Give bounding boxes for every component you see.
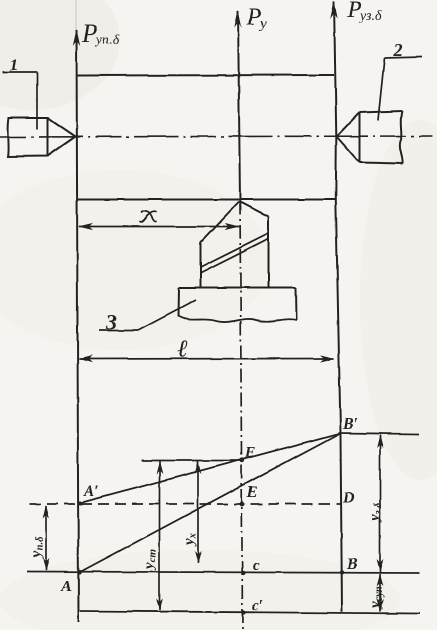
diagonal A to B' — [80, 433, 341, 572]
center vertical axis lower (dash-dot through tool and lower diagram) — [240, 201, 243, 629]
label 1 — [10, 55, 19, 74]
svg-text:F: F — [244, 445, 255, 461]
label P_uz.d — [346, 0, 382, 24]
svg-text:уз.δ: уз.δ — [358, 9, 382, 24]
node B dot — [340, 570, 344, 574]
node F label — [244, 445, 255, 461]
workpiece top edge — [77, 74, 335, 77]
dimension y_sup line — [379, 574, 381, 612]
dimension y_x top arrowhead — [195, 461, 202, 474]
svg-text:ℓ: ℓ — [177, 336, 188, 363]
cutting tool 3 body — [201, 202, 269, 288]
label 2 — [393, 40, 403, 60]
label P_up.d — [81, 19, 120, 48]
node A dot — [78, 570, 82, 574]
label P_y — [246, 5, 267, 32]
leader line for label 1 — [3, 72, 37, 129]
node A label — [60, 578, 72, 595]
svg-text:D: D — [342, 490, 355, 507]
dimension y_z.d bottom arrowhead — [377, 559, 384, 573]
left vertical line (workpiece left end, extended down) — [77, 30, 79, 622]
dimension x left arrowhead — [78, 223, 93, 230]
dashed line A'-D — [30, 503, 341, 505]
right vertical line (workpiece right end, extended down) — [334, 2, 342, 612]
svg-text:A′: A′ — [83, 483, 99, 500]
dimension x right arrowhead — [225, 223, 240, 230]
node E label — [246, 484, 258, 501]
dimension y_z.d top arrowhead — [377, 435, 384, 449]
svg-text:B: B — [346, 556, 358, 573]
headstock center 1 body — [8, 118, 76, 157]
label y_z.d (rotated) — [367, 502, 384, 523]
dimension y_x line — [197, 461, 199, 564]
line B'-level (displaced rear) — [339, 433, 419, 434]
leader line for label 3 — [99, 300, 196, 331]
dimension l line — [79, 358, 334, 361]
dimension y_p.d top arrowhead — [43, 505, 50, 518]
line C'-level (bottom) — [80, 611, 420, 614]
dimension y_p.d bottom arrowhead — [43, 558, 50, 571]
node B label — [346, 556, 358, 573]
dimension y_sup bottom arrowhead — [377, 599, 384, 612]
tool insert braze lines — [201, 234, 269, 274]
label l (script ell) — [177, 336, 188, 363]
label 3 — [105, 310, 117, 334]
force arrow P_up.d arrowhead — [73, 29, 80, 46]
dimension y_st top arrowhead — [156, 461, 163, 474]
svg-text:1: 1 — [10, 55, 19, 74]
dimension y_st line — [159, 461, 161, 610]
label y_st (rotated) — [142, 550, 159, 572]
dimension l right arrowhead — [320, 355, 335, 362]
node A' label — [83, 483, 99, 500]
center vertical line upper (P_y line through workpiece to tool tip) — [238, 11, 240, 201]
node A' dot — [78, 501, 82, 505]
diagonal A' to B' — [80, 433, 341, 503]
tool holder block — [179, 288, 297, 323]
dimension x line — [79, 226, 240, 228]
svg-text:2: 2 — [393, 40, 403, 60]
label x (script) — [140, 211, 157, 222]
dimension y_p.d line — [45, 506, 47, 570]
node F dot — [240, 458, 245, 463]
leader line for label 2 — [378, 57, 422, 120]
node B' label — [342, 416, 358, 433]
node C' dot — [241, 610, 245, 614]
svg-text:c: c — [253, 558, 260, 574]
force arrow P_y arrowhead — [234, 10, 241, 28]
dimension y_x bottom arrowhead — [195, 551, 202, 564]
line A-B (initial axis level) — [27, 572, 420, 574]
dimension y_z.d line — [379, 435, 381, 572]
line F-level (top of y_st / y_x dimensions) — [142, 460, 244, 462]
label y_sup (rotated) — [368, 586, 385, 610]
node C label — [253, 558, 260, 574]
svg-text:B′: B′ — [342, 416, 358, 433]
svg-text:уп.δ: уп.δ — [94, 33, 120, 48]
force arrow P_uz.d arrowhead — [330, 1, 337, 19]
svg-text:c′: c′ — [252, 598, 263, 614]
svg-text:E: E — [246, 484, 258, 501]
label y_x (rotated) — [182, 533, 199, 547]
dimension l left arrowhead — [78, 355, 93, 362]
node E dot — [240, 502, 245, 507]
svg-text:у: у — [258, 17, 267, 32]
tailstock center 2 — [337, 111, 403, 164]
node C' label — [252, 598, 263, 614]
dimension y_st bottom arrowhead — [156, 598, 163, 611]
label y_p.d (rotated) — [29, 536, 46, 559]
faint pencil construction line above left arrow — [75, 0, 77, 30]
svg-text:3: 3 — [105, 310, 117, 334]
horizontal centerline (axis of rotation, dash-dot) — [0, 136, 432, 137]
node D label — [342, 490, 355, 507]
node C dot — [241, 571, 245, 575]
dimension y_sup top arrowhead — [377, 573, 384, 586]
svg-text:A: A — [60, 578, 72, 595]
workpiece bottom edge — [77, 199, 336, 201]
